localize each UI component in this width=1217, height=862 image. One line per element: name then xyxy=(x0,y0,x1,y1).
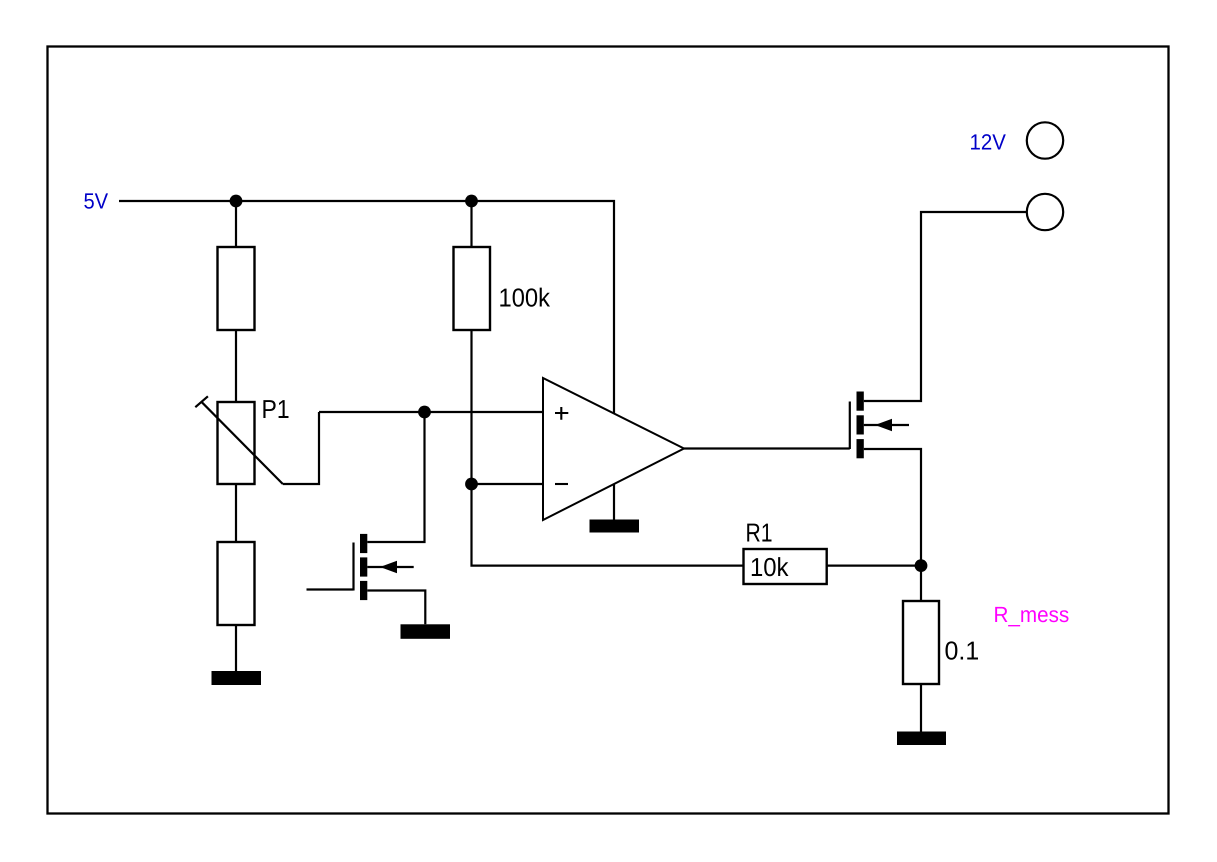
node junction dot - input xyxy=(465,478,478,491)
potentiometer P1 body xyxy=(218,402,255,484)
transistor Q1 gate line xyxy=(352,543,354,591)
wire R_mess to ground xyxy=(920,684,922,732)
transistor Q1 body bar xyxy=(360,557,367,576)
label P1 xyxy=(263,400,288,418)
wire Q2 drain to 12V connector xyxy=(864,212,1027,401)
connector terminal 12V top xyxy=(1027,122,1063,158)
transistor Q1 gate stub wire xyxy=(307,588,354,590)
wire op-amp output to Q2 gate xyxy=(684,447,850,449)
ground under divider xyxy=(212,671,262,685)
resistor R_mess body xyxy=(903,601,939,684)
resistor upper divider xyxy=(218,247,255,330)
label 10k xyxy=(752,557,789,576)
node junction dot wiper/+input xyxy=(418,406,431,419)
ground under R_mess xyxy=(897,732,946,746)
ground under op-amp xyxy=(590,520,640,533)
resistor 100k xyxy=(454,247,491,330)
label 100k xyxy=(500,288,550,307)
net label 5V xyxy=(84,193,108,208)
wire P1 wiper to op-amp + input xyxy=(283,412,319,484)
wire rail to upper divider resistor xyxy=(235,201,237,247)
transistor Q1 drain bar xyxy=(360,534,367,553)
transistor Q2 gate line xyxy=(849,402,851,450)
wire 100k down to - input node xyxy=(470,330,472,484)
node junction dot on 5V rail at divider xyxy=(230,195,243,208)
wire Q2 source to R_mess node xyxy=(864,449,921,566)
net label 12V xyxy=(971,134,1006,149)
wire op-amp - input xyxy=(472,483,544,485)
wire Q1 source to ground xyxy=(367,591,425,625)
transistor Q2 body bar xyxy=(857,415,864,434)
wire rail to 100k xyxy=(470,201,472,247)
transistor Q1 source bar xyxy=(360,581,367,600)
potentiometer P1 wiper arrow diagonal xyxy=(202,402,283,484)
wire op-amp to ground xyxy=(613,484,615,520)
wire 5V rail xyxy=(119,201,614,413)
wire upper resistor to P1 xyxy=(235,330,237,402)
op-amp + input sign xyxy=(555,407,568,420)
op-amp U1 triangle xyxy=(543,378,684,520)
wire P1 to lower divider resistor xyxy=(235,484,237,542)
transistor Q1 bulk arrow wire xyxy=(367,566,413,568)
node junction dot on 5V rail at 100k xyxy=(465,195,478,208)
label 0.1 xyxy=(945,641,978,659)
potentiometer P1 wiper tick xyxy=(195,396,208,407)
transistor Q2 bulk arrow head xyxy=(875,419,892,431)
wire lower resistor to ground xyxy=(235,625,237,671)
transistor Q2 drain bar xyxy=(857,392,864,411)
resistor lower divider xyxy=(218,542,255,625)
label R_mess xyxy=(995,607,1068,627)
label R1 xyxy=(747,524,771,542)
ground under Q1 xyxy=(401,624,451,639)
transistor Q1 bulk arrow head xyxy=(380,561,397,573)
wire feedback node to R1 xyxy=(472,484,744,566)
connector terminal 12V bottom xyxy=(1027,194,1063,230)
op-amp - input sign xyxy=(555,483,568,485)
transistor Q2 bulk arrow wire xyxy=(864,424,909,426)
node junction dot R_mess xyxy=(915,559,928,572)
wire op-amp + input xyxy=(319,411,543,413)
resistor R1 body xyxy=(744,549,827,584)
wire R1 to R_mess node xyxy=(827,564,921,566)
wire node to R_mess xyxy=(920,566,922,601)
transistor Q2 source bar xyxy=(857,439,864,458)
wire + input node to Q1 drain xyxy=(367,412,424,542)
